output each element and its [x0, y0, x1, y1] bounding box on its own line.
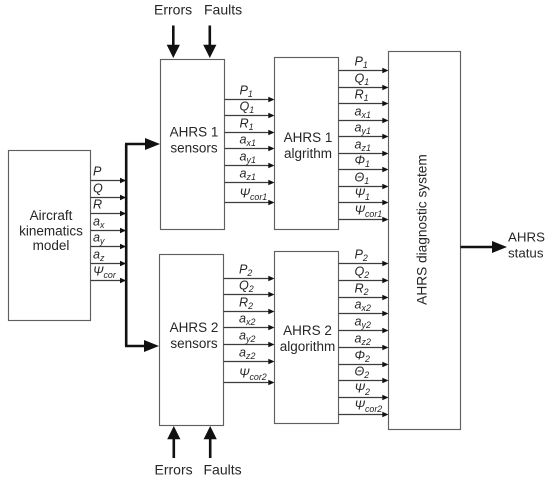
svg-text:Faults: Faults: [204, 1, 242, 17]
wire P2 sensors2 to algorithm2: [224, 262, 275, 281]
wire R2 sensors2 to algorithm2: [224, 295, 275, 314]
svg-text:Q: Q: [93, 181, 103, 195]
wire ay model to trunk: [91, 230, 127, 249]
label Aircraft kinematics model text: [19, 208, 83, 253]
wire Psi_cor2 algorithm2 to diagnostic: [339, 398, 389, 417]
arrow Errors into AHRS 2 sensors: [167, 426, 180, 458]
wire az1 sensors1 to algrithm1: [225, 166, 275, 185]
wire Theta1 algrithm1 to diagnostic: [339, 170, 389, 189]
label AHRS 2 sensors text: [170, 320, 219, 351]
wire ax1 algrithm1 to diagnostic: [339, 104, 389, 123]
wire az2 sensors2 to algorithm2: [224, 345, 275, 364]
wire Psi_cor1 sensors1 to algrithm1: [225, 186, 275, 205]
arrow Faults into AHRS 1 sensors: [203, 26, 216, 59]
arrow AHRS status output: [461, 241, 508, 253]
wire ay2 sensors2 to algorithm2: [224, 328, 275, 347]
arrow Faults into AHRS 2 sensors: [204, 426, 217, 458]
wire az2 algorithm2 to diagnostic: [339, 331, 389, 350]
wire az model to trunk: [91, 247, 127, 266]
arrow Errors into AHRS 1 sensors: [167, 26, 180, 59]
wire Phi1 algrithm1 to diagnostic: [339, 153, 389, 172]
label AHRS 1 algrithm text: [284, 130, 333, 161]
svg-text:sensors: sensors: [170, 336, 218, 351]
wire R2 algorithm2 to diagnostic: [339, 281, 389, 300]
box AHRS diagnostic system: [389, 52, 461, 430]
wire Theta2 algorithm2 to diagnostic: [339, 364, 389, 383]
wire P model to trunk: [91, 164, 127, 183]
arrow trunk to AHRS 2 sensors: [125, 340, 159, 352]
wire trunk vertical: [125, 144, 128, 346]
wire Psi_cor2 sensors2 to algorithm2: [224, 366, 275, 385]
svg-text:AHRS: AHRS: [508, 229, 545, 244]
wire ay1 algrithm1 to diagnostic: [339, 120, 389, 139]
wire Q1 algrithm1 to diagnostic: [339, 71, 389, 90]
wire Psi_cor1 algrithm1 to diagnostic: [339, 203, 389, 222]
svg-text:status: status: [508, 246, 544, 261]
box AHRS 2 sensors: [160, 255, 224, 426]
svg-text:sensors: sensors: [170, 140, 218, 155]
wire Psi1 algrithm1 to diagnostic: [339, 186, 389, 205]
wire R1 algrithm1 to diagnostic: [339, 87, 389, 106]
svg-text:AHRS 2: AHRS 2: [283, 323, 332, 338]
wire ax1 sensors1 to algrithm1: [225, 132, 275, 151]
wire ay1 sensors1 to algrithm1: [225, 149, 275, 168]
svg-text:algrithm: algrithm: [284, 146, 332, 161]
svg-text:kinematics: kinematics: [19, 224, 83, 239]
box Aircraft kinematics model: [9, 151, 91, 321]
box AHRS 2 algorithm: [275, 252, 339, 424]
wire P1 sensors1 to algrithm1: [225, 83, 275, 102]
svg-text:Faults: Faults: [204, 462, 242, 478]
svg-text:algorithm: algorithm: [280, 339, 336, 354]
wire ay2 algorithm2 to diagnostic: [339, 314, 389, 333]
label AHRS 1 sensors text: [170, 124, 219, 155]
label AHRS 2 algorithm text: [280, 323, 336, 354]
wire R1 sensors1 to algrithm1: [225, 116, 275, 135]
svg-text:AHRS 2: AHRS 2: [170, 320, 219, 335]
wire Q2 sensors2 to algorithm2: [224, 278, 275, 297]
arrow trunk to AHRS 1 sensors: [125, 138, 160, 150]
box AHRS 1 sensors: [161, 60, 225, 230]
wire ax2 sensors2 to algorithm2: [224, 311, 275, 330]
svg-text:AHRS 1: AHRS 1: [170, 124, 219, 139]
wire az1 algrithm1 to diagnostic: [339, 137, 389, 156]
svg-text:AHRS 1: AHRS 1: [284, 130, 333, 145]
wire Phi2 algorithm2 to diagnostic: [339, 348, 389, 367]
svg-text:AHRS diagnostic system: AHRS diagnostic system: [414, 154, 429, 305]
wire ax2 algorithm2 to diagnostic: [339, 297, 389, 316]
svg-text:Errors: Errors: [154, 1, 192, 17]
svg-text:Aircraft: Aircraft: [30, 208, 73, 223]
wire Psi2 algorithm2 to diagnostic: [339, 381, 389, 400]
svg-text:model: model: [33, 238, 70, 253]
wire P2 algorithm2 to diagnostic: [339, 247, 389, 266]
svg-text:Errors: Errors: [155, 462, 193, 478]
wire R model to trunk: [91, 197, 127, 216]
wire Q model to trunk: [91, 181, 127, 200]
wire Q2 algorithm2 to diagnostic: [339, 264, 389, 283]
wire Psi_cor model to trunk: [91, 264, 127, 283]
label AHRS status: [508, 229, 545, 260]
svg-text:P: P: [93, 164, 102, 178]
box AHRS 1 algrithm: [275, 58, 339, 230]
wire Q1 sensors1 to algrithm1: [225, 99, 275, 118]
wire P1 algrithm1 to diagnostic: [339, 54, 389, 73]
wire ax model to trunk: [91, 214, 127, 233]
svg-text:R: R: [93, 197, 102, 211]
